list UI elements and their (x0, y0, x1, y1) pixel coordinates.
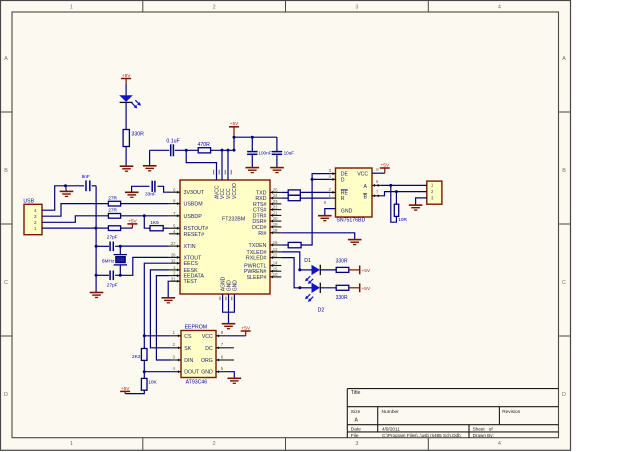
svg-text:VCC: VCC (202, 334, 213, 340)
svg-text:GND: GND (341, 209, 353, 215)
svg-text:12: 12 (273, 247, 278, 252)
svg-text:4: 4 (498, 5, 501, 11)
svg-text:2: 2 (213, 5, 216, 11)
svg-text:1K5: 1K5 (150, 220, 159, 226)
svg-text:DOUT: DOUT (184, 370, 200, 376)
svg-text:AT93C46: AT93C46 (186, 379, 208, 385)
svg-text:GND: GND (201, 370, 213, 376)
svg-text:VCCIO: VCCIO (232, 183, 238, 199)
svg-text:C: C (562, 280, 566, 286)
svg-text:GND: GND (232, 280, 238, 292)
svg-text:3: 3 (355, 5, 358, 11)
svg-text:100nF: 100nF (258, 150, 271, 155)
svg-text:R: R (341, 196, 345, 202)
svg-text:27R: 27R (108, 207, 117, 213)
svg-text:D: D (562, 392, 566, 398)
svg-text:FT232BM: FT232BM (222, 217, 245, 223)
svg-text:VCC: VCC (357, 171, 368, 177)
svg-text:RXLED#: RXLED# (246, 256, 267, 262)
svg-text:DSR#: DSR# (252, 219, 266, 225)
svg-text:19: 19 (273, 222, 278, 227)
svg-text:24: 24 (273, 193, 278, 198)
svg-text:D: D (4, 392, 8, 398)
svg-text:DC: DC (205, 346, 213, 352)
svg-text:2: 2 (34, 220, 37, 225)
svg-text:C:\Program Files\..\usb rs485: C:\Program Files\..\usb rs485 Sch.Ddb (382, 433, 461, 438)
svg-text:DTR#: DTR# (253, 213, 267, 219)
svg-text:23: 23 (273, 199, 278, 204)
svg-text:Revision: Revision (502, 409, 520, 414)
svg-text:B: B (364, 194, 368, 200)
svg-text:2: 2 (213, 441, 216, 447)
svg-text:RESET#: RESET# (184, 232, 205, 238)
svg-text:3: 3 (34, 214, 37, 219)
svg-text:4/9/2011: 4/9/2011 (382, 426, 400, 431)
svg-text:PWRCTL: PWRCTL (244, 264, 266, 270)
svg-text:USBDP: USBDP (184, 214, 203, 220)
svg-text:A: A (4, 56, 8, 62)
svg-text:XTIN: XTIN (184, 244, 196, 250)
svg-text:GND: GND (226, 280, 232, 292)
svg-text:DCD#: DCD# (252, 225, 266, 231)
svg-text:Date: Date (351, 426, 361, 432)
svg-text:18: 18 (273, 228, 278, 233)
svg-text:21: 21 (273, 211, 278, 216)
svg-text:EECS: EECS (184, 261, 199, 267)
svg-text:AGND: AGND (221, 276, 227, 291)
svg-text:0.1uF: 0.1uF (166, 139, 179, 145)
svg-text:RE: RE (341, 190, 349, 196)
svg-text:D1: D1 (304, 258, 311, 264)
svg-text:D: D (341, 177, 345, 183)
svg-text:A: A (364, 184, 368, 190)
svg-text:27: 27 (171, 241, 176, 246)
svg-text:3: 3 (355, 441, 358, 447)
svg-text:15: 15 (273, 266, 278, 271)
svg-text:RTS#: RTS# (253, 202, 266, 208)
svg-text:PWREN#: PWREN# (244, 269, 267, 275)
svg-text:4: 4 (34, 208, 37, 213)
svg-text:TEST: TEST (184, 279, 198, 285)
svg-text:EESK: EESK (184, 268, 199, 274)
svg-text:10K: 10K (148, 380, 157, 386)
svg-text:Drawn By:: Drawn By: (473, 433, 494, 438)
svg-text:VCC: VCC (226, 188, 232, 199)
svg-text:3V3OUT: 3V3OUT (184, 190, 205, 196)
svg-text:USBDM: USBDM (184, 202, 203, 208)
svg-text:10: 10 (273, 272, 278, 277)
svg-text:XTOUT: XTOUT (184, 255, 203, 261)
svg-text:10uF: 10uF (284, 150, 295, 155)
svg-text:B: B (4, 168, 8, 174)
svg-text:8nF: 8nF (82, 174, 90, 180)
svg-text:11: 11 (273, 253, 278, 258)
svg-text:TXDEN: TXDEN (249, 243, 267, 249)
svg-text:27pF: 27pF (107, 235, 118, 241)
svg-text:Sheet: Sheet (473, 426, 486, 431)
svg-text:4: 4 (498, 441, 501, 447)
svg-text:A: A (562, 56, 566, 62)
svg-text:USB: USB (23, 199, 34, 205)
svg-text:ORG: ORG (201, 358, 213, 364)
svg-text:6MHz: 6MHz (102, 258, 115, 264)
svg-text:C: C (4, 280, 8, 286)
svg-text:DE: DE (341, 172, 349, 178)
svg-text:20: 20 (273, 216, 278, 221)
svg-text:2K2: 2K2 (132, 354, 141, 360)
svg-text:470R: 470R (198, 142, 211, 148)
svg-text:1: 1 (70, 5, 73, 11)
svg-text:16: 16 (273, 240, 278, 245)
svg-text:File: File (351, 433, 359, 439)
svg-text:330R: 330R (336, 295, 348, 301)
svg-text:14: 14 (273, 261, 278, 266)
svg-text:VCC: VCC (220, 188, 226, 199)
svg-text:31: 31 (171, 276, 176, 281)
svg-text:CS: CS (184, 334, 192, 340)
svg-text:330R: 330R (132, 132, 145, 138)
svg-text:SLEEP#: SLEEP# (246, 275, 266, 281)
svg-text:SN75176BD: SN75176BD (336, 217, 365, 223)
svg-text:1: 1 (34, 226, 37, 231)
svg-text:27pF: 27pF (107, 283, 118, 289)
svg-text:EEPROM: EEPROM (185, 324, 207, 330)
svg-text:Size: Size (351, 409, 361, 415)
svg-text:TXD: TXD (256, 190, 267, 196)
svg-text:10R: 10R (398, 217, 407, 223)
svg-text:22: 22 (273, 205, 278, 210)
svg-text:330R: 330R (336, 258, 348, 264)
svg-text:25: 25 (273, 188, 278, 193)
svg-text:DIN: DIN (184, 358, 193, 364)
svg-text:Title: Title (351, 390, 361, 396)
svg-text:D2: D2 (318, 308, 325, 314)
svg-text:RI#: RI# (258, 231, 266, 237)
svg-text:Number: Number (382, 409, 400, 415)
svg-text:A: A (355, 417, 359, 423)
svg-text:27R: 27R (108, 196, 117, 202)
svg-text:1: 1 (70, 441, 73, 447)
svg-text:+5V: +5V (362, 268, 371, 274)
svg-text:32: 32 (171, 258, 176, 263)
svg-text:SK: SK (184, 346, 191, 352)
svg-text:TXLED#: TXLED# (246, 250, 266, 256)
svg-text:B: B (562, 168, 566, 174)
svg-text:CTS#: CTS# (253, 208, 267, 214)
svg-text:33nF: 33nF (145, 191, 156, 197)
svg-text:+5V: +5V (362, 286, 371, 292)
svg-text:28: 28 (171, 253, 176, 258)
svg-text:RXD: RXD (255, 196, 266, 202)
